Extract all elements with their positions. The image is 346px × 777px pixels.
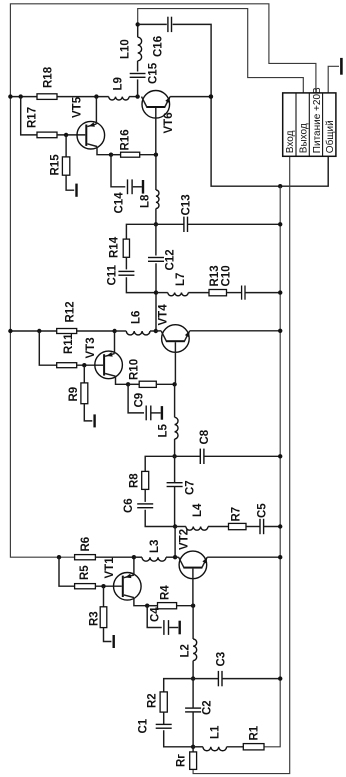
node output (L10/C16) xyxy=(136,22,140,26)
wire VT2 collector diag extension xyxy=(175,556,179,558)
transistor VT3 xyxy=(95,351,123,379)
wire +20V rail left edge (to stage 2 and stage 1 taps) xyxy=(10,97,74,558)
wire C12 bottom xyxy=(155,263,157,331)
svg-text:C4: C4 xyxy=(150,607,162,622)
wire C15 to L10 xyxy=(137,61,139,72)
wire L1 left xyxy=(193,746,203,748)
resistor R10 xyxy=(139,381,156,387)
connector block X1 xyxy=(283,93,336,156)
wire R14 to C11 xyxy=(125,257,127,269)
wire C9 branch xyxy=(128,384,144,413)
svg-text:L1: L1 xyxy=(210,725,222,739)
svg-text:R1: R1 xyxy=(249,725,261,740)
svg-text:R3: R3 xyxy=(89,611,101,626)
wire C12 top xyxy=(155,224,157,255)
wire L3 left xyxy=(134,556,142,558)
resistor R9 xyxy=(81,383,88,404)
node common line / VT6 emitter branch xyxy=(209,94,213,98)
capacitor C7 xyxy=(167,482,183,483)
wire R10 ends xyxy=(128,383,139,385)
node VT6 collector xyxy=(135,94,139,98)
node VT1 collector / R4 / C4 xyxy=(145,604,149,608)
node common bus / C8 xyxy=(278,454,282,458)
wire stage2 supply line xyxy=(10,330,56,332)
wire node to C8 xyxy=(175,455,201,457)
svg-text:L4: L4 xyxy=(192,503,204,517)
svg-text:L6: L6 xyxy=(131,311,143,324)
resistor R11 xyxy=(57,363,77,368)
svg-text:C2: C2 xyxy=(202,700,214,715)
node common bus / C5 xyxy=(278,524,282,528)
wire VT3 emitter up xyxy=(114,331,116,354)
svg-text:R11: R11 xyxy=(63,333,75,354)
resistor R16 xyxy=(121,152,140,157)
wire VT6 base to L8 xyxy=(155,155,157,190)
svg-text:C10: C10 xyxy=(221,265,233,286)
svg-text:C8: C8 xyxy=(199,429,211,444)
svg-text:R4: R4 xyxy=(160,585,172,600)
svg-text:VT6: VT6 xyxy=(163,112,175,133)
node common bus / C10 xyxy=(278,290,282,294)
svg-text:VT2: VT2 xyxy=(179,529,191,550)
capacitor C16 xyxy=(167,17,168,32)
wire common bus (right side vertical) xyxy=(264,186,280,747)
wire C4 branch xyxy=(147,606,162,628)
node VT3 collector / R10 / C9 xyxy=(126,382,130,386)
svg-text:R12: R12 xyxy=(65,301,77,322)
capacitor C3 xyxy=(218,671,219,686)
svg-text:L7: L7 xyxy=(175,273,187,286)
wire VT2 collector vertical xyxy=(174,527,176,558)
resistor R12 xyxy=(57,329,77,334)
inductor L1 xyxy=(203,747,227,751)
svg-text:L9: L9 xyxy=(113,77,125,90)
resistor R3 xyxy=(100,607,107,628)
node R10 right / VT4 base / L5 xyxy=(172,382,176,386)
ground (C9) xyxy=(161,406,163,420)
wire R8 to C6 xyxy=(144,489,146,502)
resistor R18 xyxy=(37,94,57,100)
wire R16 ends xyxy=(111,154,121,156)
svg-text:Выход: Выход xyxy=(299,123,310,153)
wire C16 right to common line down right side xyxy=(173,24,329,186)
capacitor C15 xyxy=(130,73,146,74)
wire stage3 supply line (rail to R18 to L9 to VT6 node) xyxy=(10,96,37,98)
wire L5 down xyxy=(174,384,176,417)
svg-text:VT1: VT1 xyxy=(104,557,116,579)
svg-text:VT5: VT5 xyxy=(72,96,84,118)
node R16 right / VT6 base / L8 xyxy=(154,153,158,157)
wire C2 top xyxy=(192,679,194,709)
svg-text:R6: R6 xyxy=(80,537,92,552)
node VT5 collector / R16 / C14 xyxy=(109,153,113,157)
capacitor C5 xyxy=(259,519,260,534)
wire node to C3 xyxy=(193,678,218,680)
inductor L7 xyxy=(168,293,188,296)
svg-text:C11: C11 xyxy=(107,264,119,285)
svg-text:VT3: VT3 xyxy=(85,337,97,358)
ground (top right) xyxy=(340,58,343,75)
inductor L9 xyxy=(109,97,129,100)
node VT3 base / R9 xyxy=(82,363,86,367)
svg-text:C14: C14 xyxy=(114,192,126,214)
resistor R1 xyxy=(243,744,264,750)
wire VT4 base down xyxy=(174,342,176,384)
transistor VT4 xyxy=(162,325,190,353)
wire R5 branch xyxy=(59,557,75,586)
svg-text:C12: C12 xyxy=(165,249,177,270)
capacitor C8 xyxy=(200,449,201,464)
wire output line (VT6 collector node to Vyhod pin) xyxy=(138,9,304,93)
wire VT1 collector down xyxy=(134,598,147,606)
wire R13 to C10 xyxy=(227,292,242,294)
capacitor C1 xyxy=(156,724,172,725)
transistor VT6 xyxy=(142,91,170,119)
node R11 tap xyxy=(37,329,41,333)
svg-text:C1: C1 xyxy=(138,718,150,733)
svg-text:R16: R16 xyxy=(120,129,132,150)
ground (C14) xyxy=(142,180,144,194)
resistor Rr xyxy=(190,752,197,770)
inductor L2 xyxy=(193,639,197,661)
node C7 / L4 xyxy=(173,524,177,528)
svg-text:C13: C13 xyxy=(181,194,193,215)
transistor VT1 xyxy=(114,573,142,601)
wire L4 to R7 xyxy=(208,526,229,528)
svg-text:R18: R18 xyxy=(43,66,55,88)
wire R2 chain top xyxy=(164,679,193,692)
node R4 right / VT2 base / L2 xyxy=(191,604,195,608)
wire VT3 collector down xyxy=(116,376,129,384)
svg-text:R5: R5 xyxy=(79,565,91,580)
wire R9 to ground xyxy=(84,404,92,421)
svg-text:L3: L3 xyxy=(149,540,161,553)
wire R4 ends xyxy=(147,605,157,607)
wire L8 to node xyxy=(155,209,157,225)
capacitor C9 xyxy=(146,406,147,421)
node common bus / VT2 emitter xyxy=(278,555,282,559)
capacitor C12 xyxy=(148,257,164,258)
wire L4 left xyxy=(175,526,186,528)
wire C11 down to L7 line xyxy=(126,277,156,292)
node VT1 base / R3 xyxy=(101,584,105,588)
wire node to C13 xyxy=(156,223,184,225)
node VT1 emitter / L3 xyxy=(132,555,136,559)
wire L6 left xyxy=(115,330,127,332)
resistor R2 xyxy=(160,692,167,712)
inductor L5 xyxy=(175,417,178,439)
resistor R4 xyxy=(158,603,177,609)
wire C10 to common bus xyxy=(245,292,280,294)
svg-text:VT4: VT4 xyxy=(158,304,170,326)
node common bus / VT4 emitter xyxy=(278,329,282,333)
wire C13 to common bus xyxy=(188,223,281,225)
wire VT5 emitter up xyxy=(95,97,97,124)
wire C2 bottom xyxy=(192,712,194,747)
wire R15 up xyxy=(65,135,67,157)
wire VT2 emitter to common xyxy=(207,556,280,558)
resistor R17 xyxy=(37,132,57,138)
transistor VT5 xyxy=(77,121,105,149)
capacitor C6 xyxy=(137,503,153,504)
svg-text:R17: R17 xyxy=(27,107,39,128)
node R17 tap xyxy=(19,94,23,98)
node rail stage2 xyxy=(8,329,12,333)
wire R15 to ground xyxy=(66,175,74,190)
svg-text:Питание +20В: Питание +20В xyxy=(312,87,323,153)
svg-text:C16: C16 xyxy=(153,36,165,57)
wire R6 to VT1 emitter node xyxy=(95,556,133,558)
svg-text:Вход: Вход xyxy=(285,130,296,153)
svg-text:R9: R9 xyxy=(68,387,80,402)
ground (R15) xyxy=(75,184,77,197)
wire C14 branch xyxy=(111,155,125,187)
node L6 right / VT4 collector xyxy=(154,329,158,333)
wire R14 chain top xyxy=(126,224,155,239)
resistor R15 xyxy=(62,157,69,175)
inductor L6 xyxy=(126,331,150,335)
inductor L4 xyxy=(186,527,208,531)
wire VT1 emitter up xyxy=(133,557,135,575)
svg-text:C7: C7 xyxy=(185,480,197,495)
ground (R9) xyxy=(93,414,95,427)
node common bus / C3 xyxy=(278,676,282,680)
wire C7 bottom xyxy=(174,487,176,527)
svg-text:C15: C15 xyxy=(148,62,160,84)
wire R8 chain top xyxy=(145,456,174,471)
svg-text:R2: R2 xyxy=(147,693,159,708)
resistor R7 xyxy=(229,523,247,529)
wire C5 to common bus xyxy=(264,526,281,528)
resistor R8 xyxy=(142,471,149,489)
ground (C4) xyxy=(179,621,181,635)
svg-text:R13: R13 xyxy=(209,265,221,286)
node VT3 emitter / L6 xyxy=(112,329,116,333)
wire C15 up xyxy=(137,79,139,96)
wire R17 branch xyxy=(21,97,37,135)
node L8 / C13 / R14 xyxy=(154,222,158,226)
wire VT6 emitter to common xyxy=(170,96,211,98)
svg-text:C5: C5 xyxy=(257,503,269,518)
wire R3 to ground xyxy=(104,628,112,642)
inductor L8 xyxy=(156,190,159,209)
capacitor C13 xyxy=(183,217,184,232)
wire to C16 xyxy=(138,23,167,25)
wire L2 to node xyxy=(192,661,194,679)
svg-text:Общий: Общий xyxy=(324,120,336,153)
wire VT4 emitter to common xyxy=(190,330,281,332)
node R6 tap xyxy=(57,555,61,559)
wire C4 to ground xyxy=(169,627,178,629)
wire C9 to ground xyxy=(152,412,161,414)
wire R11 branch xyxy=(39,331,56,365)
wire R11 to VT3 base xyxy=(77,364,103,366)
resistor R6 xyxy=(75,555,96,560)
wire C3 to common bus xyxy=(222,678,280,680)
svg-text:R10: R10 xyxy=(129,359,141,380)
svg-text:R8: R8 xyxy=(129,473,141,488)
capacitor C11 xyxy=(118,271,134,272)
wire C1 down to input node line xyxy=(164,730,193,747)
wire C6 down to L4 line xyxy=(145,510,175,527)
wire L1 to R1 xyxy=(227,746,244,748)
node L5 / C8 / R8 / C7 xyxy=(172,454,176,458)
node common bus top xyxy=(278,184,282,188)
capacitor C14 xyxy=(127,179,128,194)
node emitter/common xyxy=(209,94,213,98)
wire L7 left xyxy=(156,292,168,294)
capacitor C10 xyxy=(241,286,242,300)
svg-text:Rг: Rг xyxy=(176,754,188,767)
wire R9 up xyxy=(83,365,85,383)
inductor L3 xyxy=(142,557,166,561)
wire L10 top xyxy=(137,24,139,37)
wire R5 to VT1 base xyxy=(95,585,121,587)
node input (C2/C1/L1/Rr) xyxy=(191,745,195,749)
wire R3 up xyxy=(103,586,105,607)
svg-text:L2: L2 xyxy=(180,644,192,657)
svg-text:C9: C9 xyxy=(134,393,146,408)
wire C7 top xyxy=(174,456,176,482)
node L3 right / VT2 collector xyxy=(173,555,177,559)
wire +20V rail (left edge and top edge to connector) xyxy=(10,4,316,97)
wire VT6 base down xyxy=(155,108,157,155)
node VT5 base / R15 xyxy=(64,133,68,137)
wire C14 to ground xyxy=(133,186,142,188)
svg-text:R7: R7 xyxy=(231,507,243,522)
svg-text:L5: L5 xyxy=(158,423,170,437)
wire R2 to C1 xyxy=(163,712,165,724)
capacitor C2 xyxy=(185,707,201,708)
transistor VT2 xyxy=(179,551,207,579)
wire Rr top xyxy=(192,747,194,752)
wire common top to ground symbol xyxy=(328,66,339,93)
node rail/R18 xyxy=(8,94,12,98)
node L9 left / VT5 emitter xyxy=(94,94,98,98)
wire VT2 base down xyxy=(192,569,194,606)
node common bus / C13 xyxy=(278,222,282,226)
svg-text:C6: C6 xyxy=(123,498,135,513)
resistor R5 xyxy=(75,584,96,589)
wire VT4 collector diag extension xyxy=(156,330,161,332)
svg-text:R15: R15 xyxy=(50,154,62,176)
wire R17 to VT5 base xyxy=(57,134,85,136)
wire input bus (Vhod pin down right edge to bottom rail) xyxy=(193,156,290,773)
resistor R13 xyxy=(209,290,227,296)
inductor L10 xyxy=(138,37,142,61)
wire L5 to node xyxy=(174,439,176,456)
svg-text:L10: L10 xyxy=(120,39,132,59)
ground (R3) xyxy=(113,635,115,648)
wire L2 down xyxy=(192,606,194,639)
wire L3 right xyxy=(166,556,175,558)
wire C8 to common bus xyxy=(204,455,280,457)
node C12 / L7 xyxy=(154,290,158,294)
wire VT5 collector down xyxy=(97,147,111,155)
node L2 / C3 / R2 / C2 xyxy=(191,676,195,680)
capacitor C4 xyxy=(163,620,164,635)
wire L7 to R13 xyxy=(188,292,209,294)
wire R7 to C5 xyxy=(246,526,260,528)
resistor R14 xyxy=(123,239,129,257)
svg-text:R14: R14 xyxy=(109,236,121,258)
svg-text:C3: C3 xyxy=(216,652,228,667)
svg-text:L8: L8 xyxy=(140,194,152,208)
